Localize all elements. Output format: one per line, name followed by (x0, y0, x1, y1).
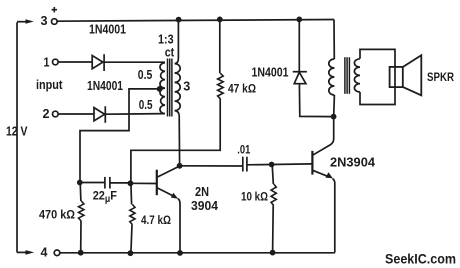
wire node to C1 (80, 182, 105, 184)
svg-text:10 kΩ: 10 kΩ (241, 190, 268, 204)
speaker horn (403, 55, 421, 95)
wire R3 to ground rail (131, 225, 132, 254)
svg-text:1N4001: 1N4001 (87, 78, 123, 93)
diode D2 (94, 106, 105, 123)
wire terminal 2 to D2 (58, 113, 94, 115)
svg-text:4.7 kΩ: 4.7 kΩ (141, 213, 171, 227)
node top rail R1 tap (217, 17, 223, 23)
svg-text:1: 1 (44, 54, 50, 69)
node R4 ground (270, 250, 276, 256)
transformer T1 primary winding (160, 63, 165, 114)
svg-text:0.5: 0.5 (139, 98, 153, 112)
wire D2 to T1 primary bottom (105, 113, 165, 116)
svg-text:0.5: 0.5 (138, 68, 153, 82)
wire top rail to T2 primary (333, 20, 335, 60)
wire terminal 4 arrow stub (17, 251, 26, 253)
wire terminal 1 to D1 (58, 61, 92, 63)
svg-text:3: 3 (183, 79, 190, 94)
arrow into terminal 4 (26, 250, 35, 255)
wire T2 secondary loop (360, 49, 395, 104)
node T2 bottom (331, 114, 337, 120)
svg-text:SeekIC.com: SeekIC.com (385, 250, 456, 266)
node Q1 emitter ground (177, 250, 183, 256)
speaker driver (390, 67, 403, 87)
wire left 12V rail (16, 22, 18, 252)
wire node to R2 (79, 183, 82, 202)
capacitor C1 22uF (105, 177, 110, 189)
transformer T1 core (168, 59, 172, 117)
node R3 ground (127, 250, 133, 256)
svg-text:3904: 3904 (191, 199, 218, 213)
resistor R3 4.7k (130, 205, 135, 225)
wire Q1 collector to C2 (180, 165, 243, 167)
node Q2 base (269, 162, 275, 168)
transformer T2 secondary winding (354, 59, 360, 92)
capacitor C2 .01 (243, 157, 247, 172)
resistor R4 10k (271, 184, 276, 206)
wire ground rail (60, 252, 335, 254)
svg-text:SPKR: SPKR (427, 70, 454, 84)
svg-text:1N4001: 1N4001 (252, 65, 289, 80)
svg-text:1N4001: 1N4001 (89, 22, 126, 37)
transformer T1 secondary winding (175, 20, 181, 166)
svg-text:1:3: 1:3 (158, 32, 174, 46)
svg-text:47 kΩ: 47 kΩ (228, 82, 256, 96)
svg-text:2N3904: 2N3904 (330, 156, 375, 170)
wire T2 primary to bottom node (333, 95, 336, 117)
terminal 1 (53, 59, 59, 65)
wire top rail to R1 (219, 19, 221, 73)
svg-text:.01: .01 (237, 143, 250, 157)
wire top supply rail (57, 20, 334, 22)
svg-text:ct: ct (165, 45, 175, 59)
wire C1 to base node (110, 182, 130, 184)
wire base node to Q1 base (130, 182, 156, 184)
node top rail D3 tap (296, 17, 302, 23)
node T1 center tap (157, 86, 163, 92)
diode D1 (92, 54, 104, 71)
arrowhead Q2 emitter (325, 172, 333, 178)
svg-text:12 V: 12 V (6, 124, 28, 138)
terminal 3 (52, 19, 58, 25)
wire R4 to ground rail (272, 206, 275, 253)
node R2 ground (78, 250, 84, 256)
node Q1 base (127, 180, 133, 186)
node C1 left (77, 180, 83, 186)
wire R2 to ground rail (80, 221, 82, 253)
terminal 2 (53, 111, 59, 117)
wire D1 to T1 primary top (104, 61, 165, 63)
node top rail T1 tap (176, 17, 182, 23)
terminal 4 (54, 250, 60, 256)
resistor R2 470k (79, 201, 84, 221)
svg-text:470 kΩ: 470 kΩ (39, 208, 75, 222)
wire Q2 base node to R4 (272, 165, 273, 185)
node Q1 collector (177, 163, 183, 169)
transformer T2 primary winding (329, 59, 335, 95)
wire center tap to C1 node (80, 89, 160, 182)
arrow into terminal 3 (26, 19, 34, 24)
wire C2 to Q2 base node (247, 164, 271, 166)
svg-text:2N: 2N (195, 185, 209, 199)
wire terminal 3 arrow stub (17, 21, 26, 23)
wire R1 bottom to base node (131, 99, 220, 183)
wire base node to R3 (130, 183, 133, 204)
transistor Q2 2N3904 (312, 117, 334, 253)
transformer T2 core (345, 57, 350, 94)
resistor R1 47k (218, 73, 224, 99)
svg-text:4: 4 (41, 244, 49, 259)
svg-text:3: 3 (41, 13, 48, 28)
diode D3 (293, 72, 307, 84)
arrowhead Q1 emitter (171, 193, 179, 199)
svg-text:input: input (36, 78, 63, 92)
label + polarity (52, 7, 57, 12)
wire D3 anode to T2 node (299, 84, 333, 117)
transistor Q1 2N3904 (157, 166, 180, 253)
wire top rail to D3 cathode (298, 19, 300, 71)
wire Q2 base node to base (272, 163, 312, 166)
svg-text:2: 2 (43, 106, 50, 121)
